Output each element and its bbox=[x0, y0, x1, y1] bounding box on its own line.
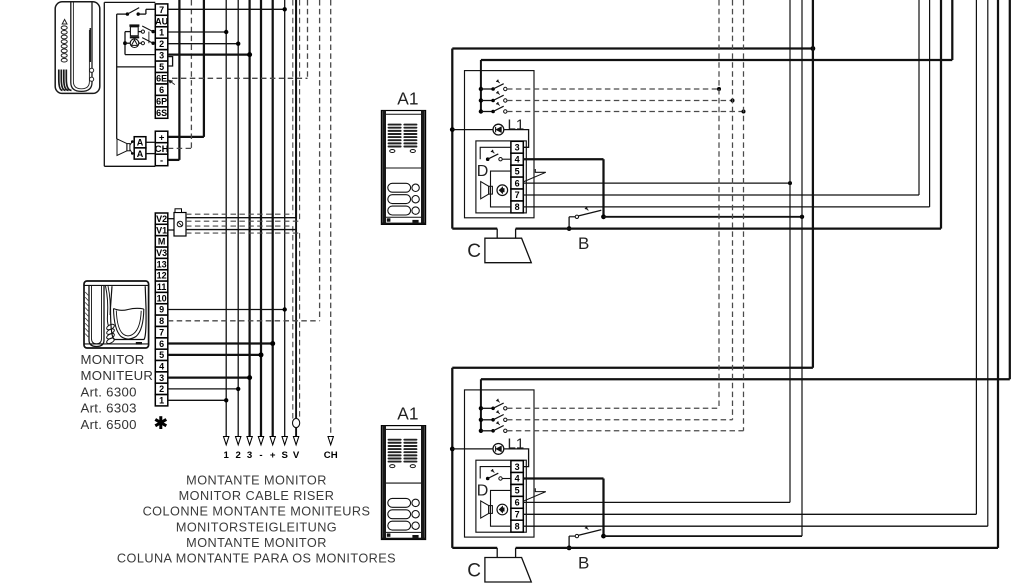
svg-text:MONITEUR: MONITEUR bbox=[81, 368, 154, 383]
svg-text:D: D bbox=[477, 483, 489, 500]
svg-text:2: 2 bbox=[159, 384, 164, 394]
svg-text:2: 2 bbox=[236, 450, 241, 461]
svg-text:5: 5 bbox=[515, 486, 520, 496]
svg-text:V: V bbox=[293, 450, 300, 461]
svg-text:-: - bbox=[259, 450, 262, 461]
svg-text:11: 11 bbox=[157, 282, 167, 292]
svg-text:+: + bbox=[270, 450, 276, 461]
svg-text:1: 1 bbox=[159, 396, 164, 406]
svg-text:3: 3 bbox=[159, 51, 164, 61]
svg-text:B: B bbox=[578, 553, 589, 572]
svg-text:6P: 6P bbox=[156, 96, 167, 106]
svg-text:COLONNE MONTANTE MONITEURS: COLONNE MONTANTE MONITEURS bbox=[143, 505, 371, 519]
svg-text:4: 4 bbox=[515, 154, 520, 164]
svg-text:V1: V1 bbox=[156, 225, 167, 235]
svg-text:D: D bbox=[477, 163, 489, 180]
svg-text:6: 6 bbox=[515, 498, 520, 508]
svg-text:-: - bbox=[160, 155, 163, 166]
svg-text:M: M bbox=[158, 237, 166, 247]
svg-text:MONITOR: MONITOR bbox=[81, 352, 145, 367]
svg-text:6E: 6E bbox=[156, 74, 167, 84]
svg-text:8: 8 bbox=[515, 522, 520, 532]
svg-text:6S: 6S bbox=[156, 108, 167, 118]
svg-text:V2: V2 bbox=[156, 214, 167, 224]
svg-text:A1: A1 bbox=[397, 88, 418, 108]
svg-text:6: 6 bbox=[515, 178, 520, 188]
svg-text:L1: L1 bbox=[508, 116, 525, 133]
svg-text:6: 6 bbox=[159, 85, 164, 95]
svg-text:V3: V3 bbox=[156, 248, 167, 258]
svg-text:AU: AU bbox=[155, 16, 168, 26]
svg-text:Art. 6303: Art. 6303 bbox=[81, 401, 137, 416]
svg-text:A: A bbox=[137, 138, 144, 148]
svg-text:10: 10 bbox=[157, 293, 167, 303]
svg-text:2: 2 bbox=[159, 39, 164, 49]
svg-text:3: 3 bbox=[515, 462, 520, 472]
svg-text:3: 3 bbox=[159, 373, 164, 383]
svg-text:C: C bbox=[467, 241, 481, 262]
svg-text:7: 7 bbox=[159, 5, 164, 15]
svg-text:9: 9 bbox=[159, 305, 164, 315]
svg-text:MONTANTE MONITOR: MONTANTE MONITOR bbox=[186, 474, 327, 488]
svg-text:C: C bbox=[467, 561, 481, 582]
svg-text:CH: CH bbox=[324, 450, 338, 461]
svg-text:3: 3 bbox=[515, 143, 520, 153]
svg-text:CH: CH bbox=[155, 144, 169, 155]
svg-text:Art. 6300: Art. 6300 bbox=[81, 384, 137, 399]
svg-text:4: 4 bbox=[515, 474, 520, 484]
svg-text:8: 8 bbox=[515, 202, 520, 212]
svg-text:13: 13 bbox=[157, 259, 167, 269]
svg-text:MONITORSTEIGLEITUNG: MONITORSTEIGLEITUNG bbox=[176, 520, 337, 534]
svg-text:5: 5 bbox=[515, 166, 520, 176]
svg-text:7: 7 bbox=[515, 190, 520, 200]
svg-text:4: 4 bbox=[159, 362, 164, 372]
svg-text:8: 8 bbox=[159, 316, 164, 326]
svg-text:B: B bbox=[578, 234, 589, 253]
svg-text:S: S bbox=[281, 450, 288, 461]
svg-text:5: 5 bbox=[159, 350, 164, 360]
svg-text:7: 7 bbox=[515, 510, 520, 520]
svg-text:12: 12 bbox=[157, 271, 167, 281]
svg-text:L1: L1 bbox=[508, 436, 525, 453]
svg-text:A1: A1 bbox=[397, 404, 418, 424]
svg-text:A: A bbox=[137, 149, 144, 159]
svg-text:5: 5 bbox=[159, 62, 164, 72]
svg-text:MONITOR CABLE RISER: MONITOR CABLE RISER bbox=[179, 489, 335, 503]
svg-text:+: + bbox=[159, 132, 165, 143]
svg-text:6: 6 bbox=[159, 339, 164, 349]
svg-text:1: 1 bbox=[224, 450, 230, 461]
svg-text:COLUNA MONTANTE PARA OS MONITO: COLUNA MONTANTE PARA OS MONITORES bbox=[117, 552, 396, 566]
svg-text:1: 1 bbox=[159, 28, 164, 38]
svg-text:3: 3 bbox=[247, 450, 252, 461]
svg-text:MONTANTE MONITOR: MONTANTE MONITOR bbox=[186, 536, 327, 550]
svg-text:Art. 6500: Art. 6500 bbox=[81, 417, 137, 432]
svg-text:7: 7 bbox=[159, 327, 164, 337]
